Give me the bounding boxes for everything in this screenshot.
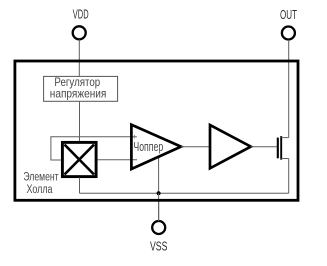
- svg-text:Чоппер: Чоппер: [133, 139, 163, 154]
- wire transistor source to ground rail: [288, 159, 290, 194]
- pin VDD: [73, 8, 89, 40]
- wire junction to VSS pin: [158, 193, 160, 221]
- wire Hall right side to chopper lower input: [98, 159, 138, 161]
- wire Hall bottom to ground rail: [79, 178, 81, 194]
- svg-text:Холла: Холла: [27, 184, 53, 196]
- label Элемент Холла: [23, 172, 59, 196]
- svg-text:VSS: VSS: [150, 240, 167, 254]
- amplifier A2: [210, 125, 251, 168]
- svg-text:напряжения: напряжения: [50, 87, 107, 101]
- plus mark upper input: [133, 135, 135, 139]
- wire Hall left side loop to chopper upper input: [51, 137, 137, 160]
- svg-text:OUT: OUT: [280, 8, 297, 22]
- wire chopper output to amplifier: [181, 146, 210, 148]
- transistor Q1 output MOSFET: [278, 136, 289, 160]
- chopper amplifier A1: [131, 125, 181, 169]
- pin VSS: [150, 221, 167, 254]
- junction ground node: [157, 191, 161, 195]
- pin OUT: [280, 8, 297, 40]
- wire chopper bottom to ground rail: [158, 157, 160, 193]
- svg-text:Элемент: Элемент: [23, 172, 59, 184]
- Hall element square with X: [62, 142, 96, 176]
- IC boundary rectangle: [15, 61, 298, 200]
- ground rail wire to transistor source: [80, 192, 289, 194]
- wire transistor drain to OUT pin: [288, 40, 290, 138]
- svg-text:VDD: VDD: [73, 8, 89, 22]
- wire amplifier output to transistor gate: [251, 146, 277, 148]
- wire VSS junction through border to VSS circle: [158, 199, 160, 221]
- voltage regulator block U1: [44, 76, 118, 101]
- wire VDD pin to regulator: [78, 40, 80, 77]
- wire regulator to Hall element: [79, 101, 81, 141]
